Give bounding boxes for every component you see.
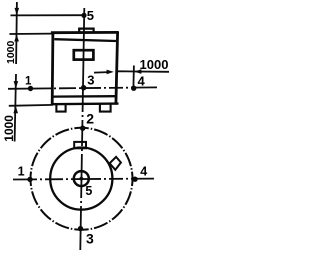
svg-text:3: 3 — [86, 231, 94, 247]
svg-text:1000: 1000 — [2, 115, 16, 142]
svg-text:4: 4 — [138, 74, 146, 89]
svg-text:5: 5 — [85, 184, 92, 198]
svg-text:2: 2 — [86, 110, 94, 126]
svg-text:3: 3 — [87, 72, 94, 87]
svg-text:4: 4 — [140, 164, 147, 178]
svg-text:5: 5 — [87, 8, 94, 23]
svg-text:1000: 1000 — [5, 40, 17, 64]
svg-text:1: 1 — [18, 164, 25, 178]
svg-text:1000: 1000 — [140, 57, 169, 72]
svg-text:1: 1 — [25, 76, 32, 88]
